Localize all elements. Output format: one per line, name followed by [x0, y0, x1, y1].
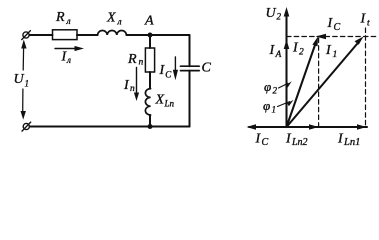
axis U2 vertical: [284, 7, 290, 127]
svg-text:I: I: [255, 132, 262, 147]
svg-text:C: C: [202, 61, 212, 76]
svg-text:R: R: [55, 10, 65, 25]
svg-text:A: A: [275, 50, 282, 60]
phasor I1: [287, 37, 364, 128]
svg-text:2: 2: [273, 86, 278, 96]
svg-text:2: 2: [299, 48, 304, 58]
capacitor C: [181, 66, 200, 70]
phasor I2: [287, 37, 319, 128]
junction dot: [148, 124, 153, 129]
angle phi2 leader arrow: [279, 81, 292, 88]
svg-text:A: A: [144, 14, 154, 29]
svg-text:I: I: [327, 16, 334, 31]
phasor IC top arrowhead: [316, 34, 327, 39]
label U2: [266, 6, 282, 22]
label Iп: [123, 78, 135, 94]
label Rп: [127, 52, 144, 68]
svg-text:л: л: [117, 17, 122, 27]
svg-text:X: X: [155, 93, 165, 108]
svg-text:п: п: [130, 84, 135, 94]
svg-text:C: C: [165, 70, 172, 80]
svg-text:C: C: [334, 22, 341, 33]
voltage arrow U1: [21, 40, 27, 120]
svg-text:1: 1: [25, 79, 30, 89]
current arrow IC circuit: [173, 57, 178, 80]
label IA: [269, 43, 282, 60]
svg-text:φ: φ: [264, 79, 271, 94]
svg-text:I: I: [285, 132, 292, 147]
svg-text:л: л: [66, 17, 71, 27]
label Xл: [106, 11, 122, 28]
node A: [148, 33, 153, 38]
wire top-left: [29, 34, 52, 36]
label IC circuit: [159, 63, 173, 80]
svg-text:I: I: [337, 132, 344, 147]
svg-text:п: п: [139, 58, 144, 68]
resistor Rл: [53, 30, 78, 40]
svg-text:R: R: [127, 52, 137, 67]
terminal bottom-left: [22, 122, 31, 131]
svg-text:1: 1: [272, 105, 277, 115]
axis horizontal bottom: [249, 126, 367, 128]
svg-text:I: I: [360, 12, 367, 27]
label Rл: [55, 10, 71, 27]
svg-text:C: C: [262, 137, 269, 148]
svg-text:I: I: [292, 41, 299, 56]
wire inductor to node A: [126, 34, 150, 36]
label A: [144, 14, 154, 29]
wire capacitor branch down: [189, 35, 191, 66]
svg-text:л: л: [66, 55, 71, 65]
label C: [202, 61, 212, 76]
label I1: [325, 43, 337, 60]
svg-text:X: X: [106, 11, 116, 26]
current arrow Iп: [134, 68, 139, 102]
current arrow Iл: [55, 46, 84, 51]
wire node A down: [149, 35, 151, 48]
label IC top: [327, 16, 341, 33]
svg-text:1: 1: [333, 50, 338, 60]
svg-text:t: t: [367, 19, 370, 29]
wire resistor to inductor: [77, 34, 98, 36]
svg-text:Ln: Ln: [164, 99, 175, 109]
phasor IA arrowhead: [284, 40, 290, 50]
svg-text:U: U: [266, 6, 277, 21]
wire bottom: [30, 126, 190, 128]
label ILn1: [337, 132, 360, 149]
dashed vertical from I2 tip: [318, 38, 320, 127]
phasor ILn2 arrowhead: [309, 124, 319, 130]
label U1: [14, 72, 30, 89]
label XLn: [155, 93, 175, 109]
svg-text:Ln2: Ln2: [291, 137, 308, 148]
dashed horizontal line: [287, 36, 378, 38]
dashed vertical from I1 tip: [365, 28, 367, 127]
wire capacitor to bottom: [189, 71, 191, 127]
phasor IC left arrowhead: [247, 124, 257, 130]
label IC bottom: [255, 132, 269, 149]
svg-text:I: I: [325, 43, 332, 58]
svg-text:I: I: [123, 78, 130, 93]
label Iл: [61, 50, 72, 66]
angle phi1 label: [263, 98, 276, 115]
inductor Xл: [98, 31, 127, 36]
phasor ILn1 arrowhead: [357, 124, 367, 130]
label ILn2: [285, 132, 308, 149]
terminal top-left: [22, 31, 31, 40]
svg-text:U: U: [14, 72, 25, 87]
wire Rп to XLn: [149, 72, 151, 89]
inductor XLn: [145, 89, 150, 115]
svg-text:2: 2: [277, 12, 282, 22]
label It: [360, 12, 371, 29]
svg-text:Ln1: Ln1: [343, 137, 360, 148]
svg-text:φ: φ: [263, 98, 270, 113]
angle phi1 leader arrow: [278, 100, 294, 107]
svg-text:I: I: [269, 43, 276, 58]
wire node A to right branch: [150, 34, 190, 36]
angle phi2 label: [264, 79, 278, 96]
label I2: [292, 41, 304, 58]
wire XLn to bottom: [149, 115, 151, 127]
resistor Rп: [145, 48, 154, 72]
